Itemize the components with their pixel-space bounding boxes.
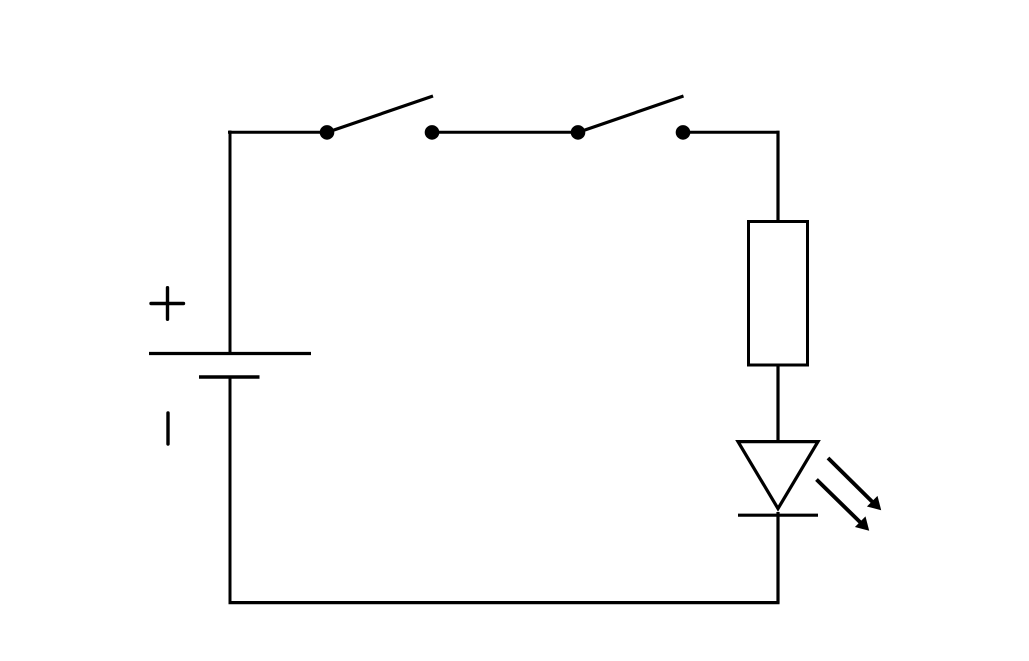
switch S2 pivot node — [571, 125, 586, 140]
switch S1 lever (open) — [327, 96, 433, 132]
wire: switch S2 terminal to top-right corner — [683, 131, 780, 134]
wire: battery negative to bottom rail — [229, 377, 232, 604]
switch S1 pivot node — [320, 125, 335, 140]
switch S2 lever (open) — [578, 96, 684, 132]
wire: left vertical, battery positive to top rail — [229, 131, 232, 354]
wire: top rail, left corner to switch S1 pivot — [228, 131, 327, 134]
label: minus mark at battery negative — [166, 413, 169, 444]
label: plus sign at battery positive — [151, 288, 184, 320]
LED D1 triangle (anode) — [738, 442, 818, 509]
LED light-emission arrow 2 — [817, 480, 870, 531]
switch S1 terminal node — [425, 125, 440, 140]
wire: LED D1 cathode to bottom rail — [776, 512, 779, 604]
wire: between switch S1 and switch S2 — [432, 131, 578, 134]
wire: resistor R1 to LED D1 anode — [776, 365, 779, 444]
LED D1 cathode bar — [738, 514, 818, 517]
resistor R1 (box symbol) — [749, 222, 808, 366]
battery B1 positive plate (long) — [149, 352, 311, 355]
wire: right vertical, top rail down to resistor R1 — [776, 131, 779, 222]
LED light-emission arrow 1 — [828, 458, 881, 510]
wire: bottom rail — [229, 601, 780, 604]
switch S2 terminal node — [676, 125, 691, 140]
battery B1 negative plate (short) — [199, 375, 260, 378]
